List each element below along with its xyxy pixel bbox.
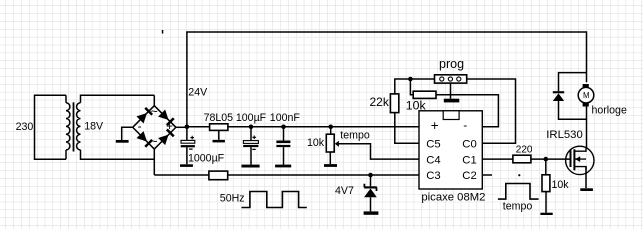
svg-text:50Hz: 50Hz: [220, 193, 245, 205]
svg-text:C3: C3: [426, 170, 440, 182]
svg-text:22k: 22k: [370, 95, 390, 109]
svg-text:prog: prog: [439, 57, 464, 71]
svg-text:tempo: tempo: [503, 201, 533, 213]
svg-text:~: ~: [151, 105, 158, 119]
svg-text:220: 220: [516, 144, 533, 155]
svg-text:4V7: 4V7: [335, 185, 354, 197]
svg-text:+: +: [431, 118, 439, 133]
svg-text:78L05: 78L05: [204, 112, 234, 124]
svg-text:18V: 18V: [84, 121, 104, 133]
svg-text:horloge: horloge: [592, 105, 627, 117]
svg-text:tempo: tempo: [340, 130, 370, 142]
svg-text:10k: 10k: [552, 179, 570, 191]
svg-text:10k: 10k: [307, 137, 325, 149]
svg-text:100nF: 100nF: [270, 112, 301, 124]
svg-text:IRL530: IRL530: [546, 129, 582, 141]
svg-text:24V: 24V: [188, 86, 208, 98]
svg-text:C4: C4: [426, 155, 440, 167]
svg-text:picaxe 08M2: picaxe 08M2: [421, 192, 485, 204]
svg-text:M: M: [583, 91, 590, 100]
svg-text:+: +: [166, 119, 173, 133]
svg-text:C0: C0: [462, 138, 476, 150]
svg-text:C1: C1: [462, 155, 476, 167]
svg-text:~: ~: [150, 135, 157, 149]
svg-text:C5: C5: [426, 138, 440, 150]
svg-text:10k: 10k: [406, 98, 427, 112]
svg-text:-: -: [138, 119, 142, 133]
svg-text:230: 230: [16, 121, 34, 133]
svg-text:-: -: [463, 118, 467, 132]
svg-text:1000µF: 1000µF: [188, 152, 225, 164]
svg-text:100µF: 100µF: [236, 112, 267, 124]
svg-text:C2: C2: [462, 170, 476, 182]
